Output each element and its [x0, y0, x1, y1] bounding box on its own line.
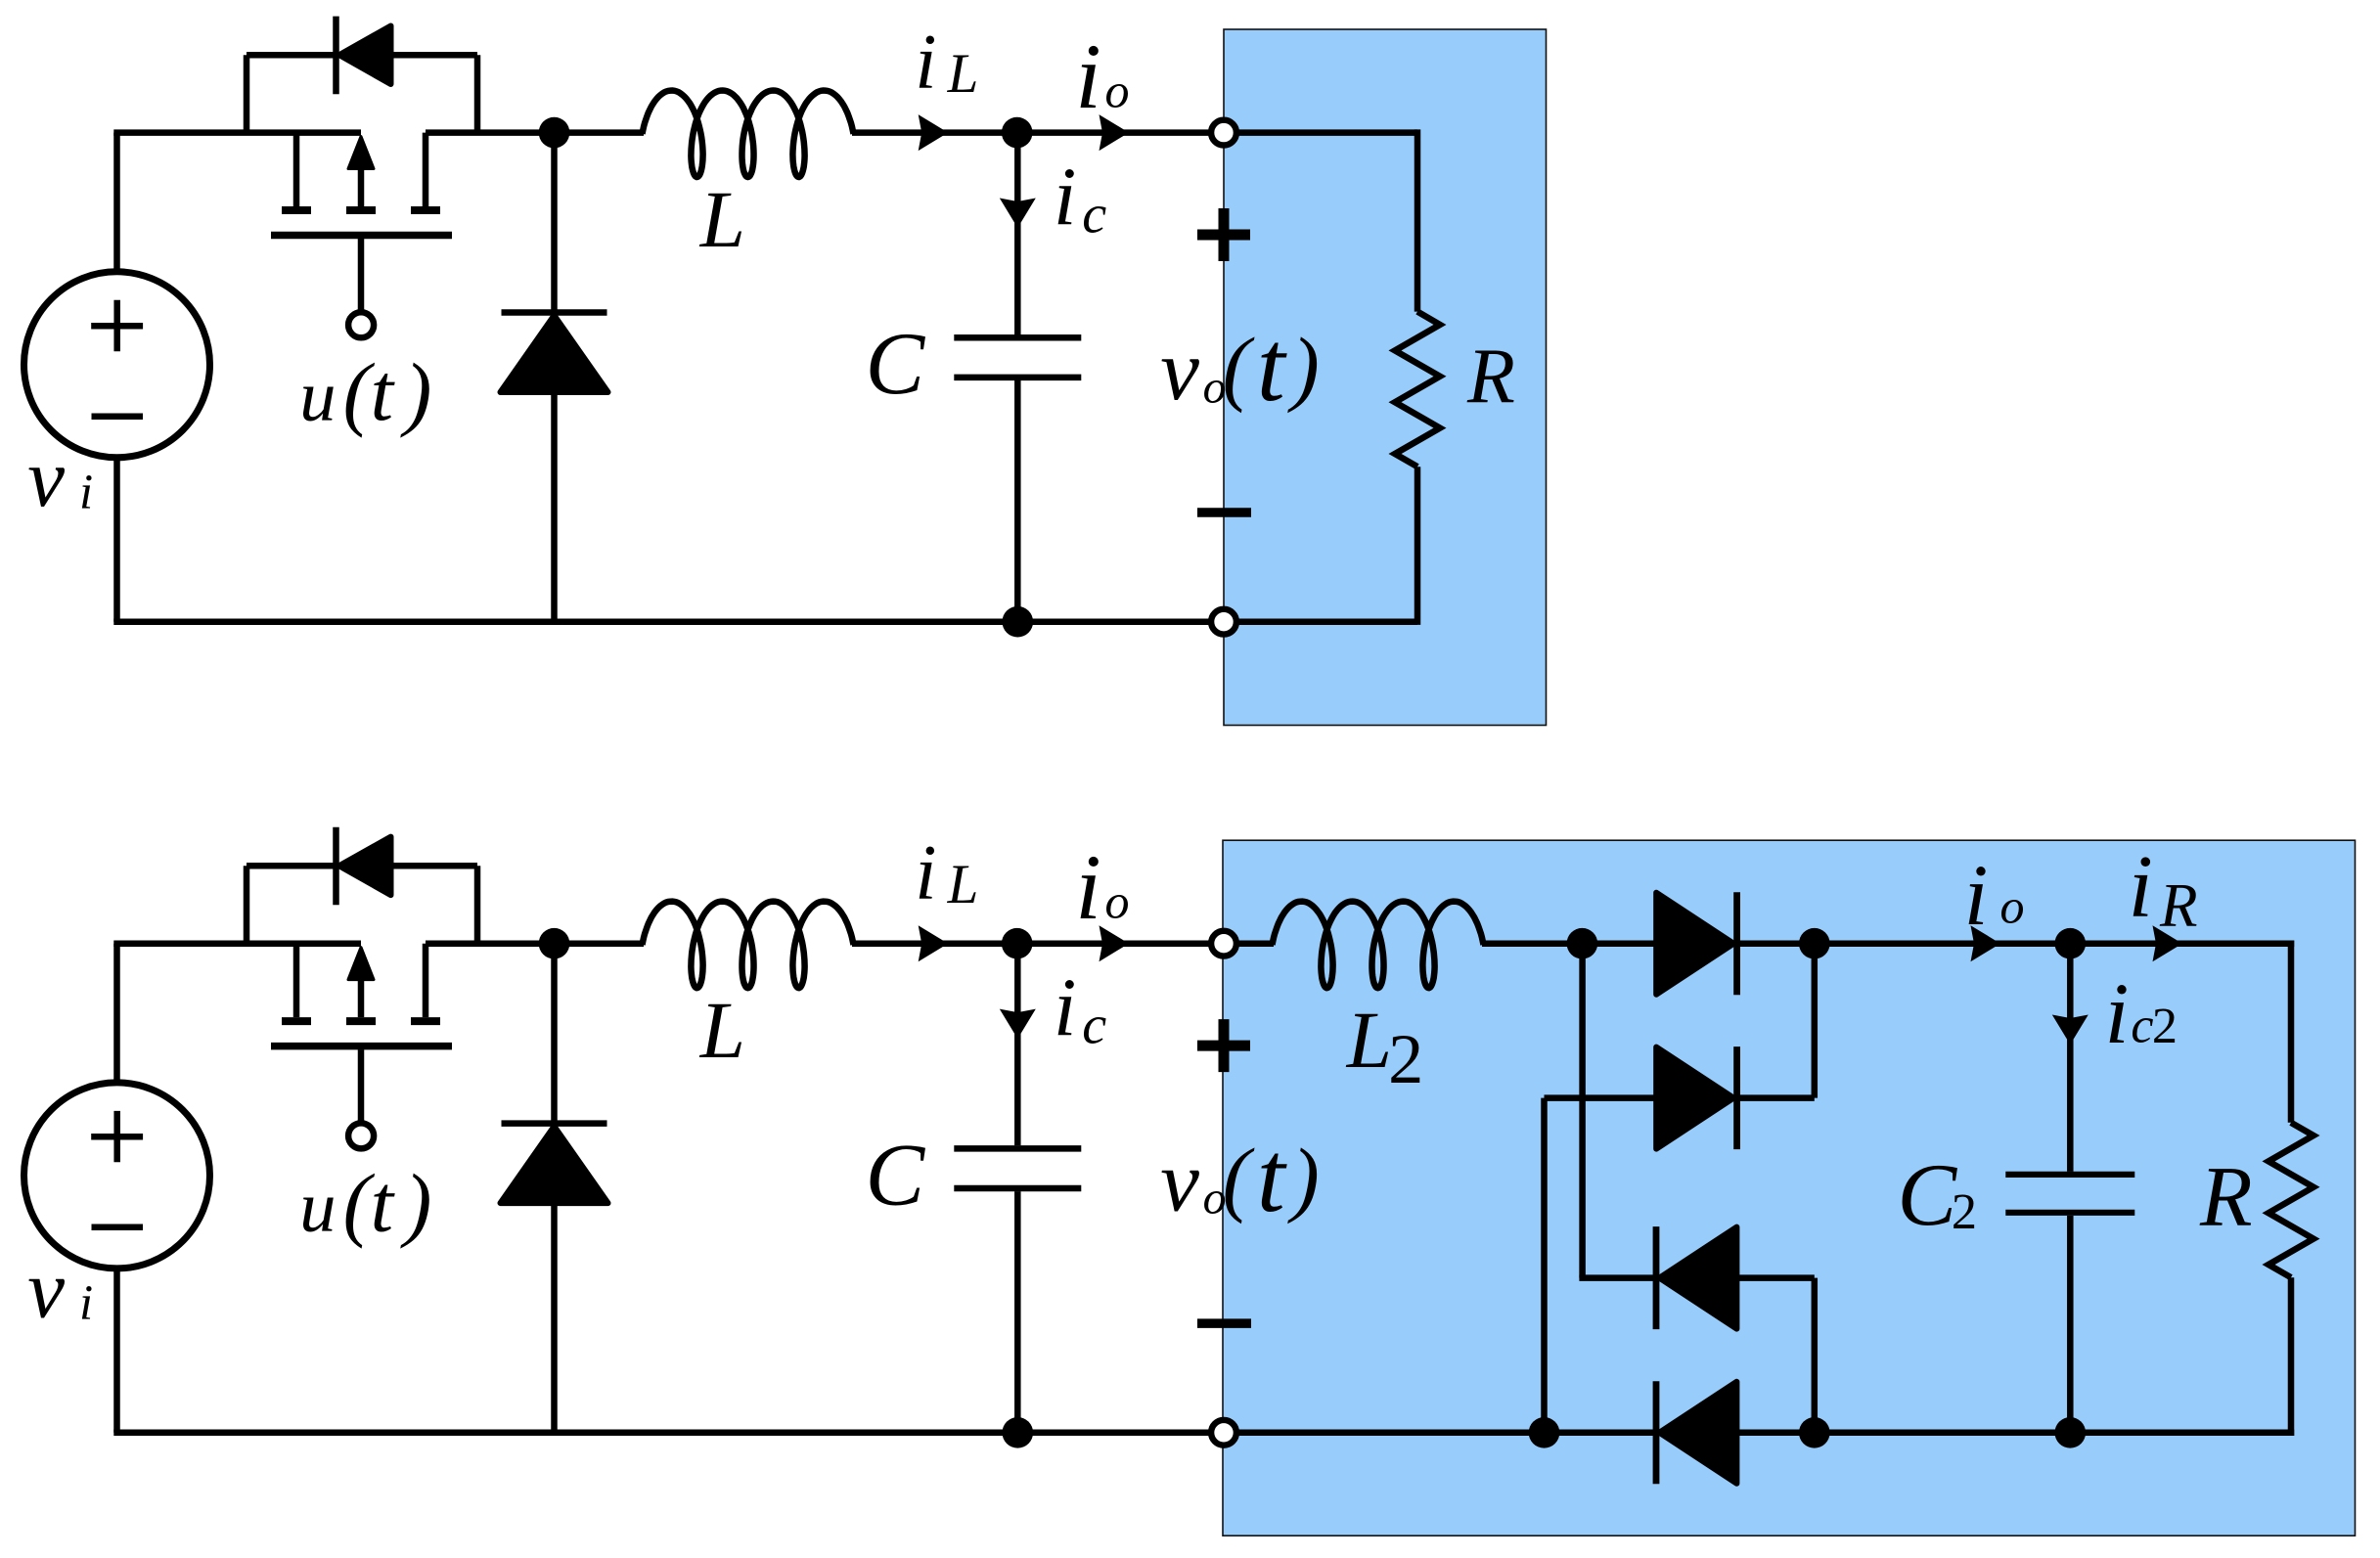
- inductor L (bottom): [643, 902, 854, 989]
- svg-text:u: u: [299, 1167, 336, 1247]
- svg-text:i: i: [2105, 966, 2130, 1062]
- svg-text:i: i: [79, 1275, 93, 1330]
- svg-text:c: c: [1082, 996, 1106, 1056]
- node bridge AC bottom dot: [1529, 1417, 1560, 1448]
- inductor L2: [1235, 902, 1582, 989]
- label R (top): [1466, 334, 1515, 420]
- wire vi top lead (top): [113, 133, 120, 272]
- svg-text:): ): [1286, 1132, 1320, 1224]
- resistor R (bridge load): [2268, 1123, 2313, 1277]
- diode D4 bridge bottom: [1656, 1381, 1736, 1484]
- label iL (top): [915, 20, 978, 106]
- wire top rail right of MOSFET (top): [426, 129, 644, 136]
- node inductor-capacitor junction dot (bottom): [1002, 928, 1033, 959]
- svg-text:(: (: [1223, 1132, 1255, 1224]
- label C (top): [866, 314, 926, 413]
- node capacitor bottom junction dot (bottom): [1003, 1417, 1034, 1448]
- current arrow iL (top): [919, 114, 949, 151]
- label ic (bottom): [1054, 962, 1106, 1055]
- wire bottom rail (top): [113, 618, 1213, 625]
- label ic (top): [1054, 152, 1106, 245]
- load network highlight box (top circuit): [1224, 29, 1547, 726]
- body diode D (top): [337, 17, 391, 95]
- voltage source vi (top): [24, 272, 210, 458]
- svg-text:(: (: [1223, 321, 1255, 414]
- wire bridge output rail: [1815, 940, 2294, 947]
- svg-text:): ): [400, 1159, 431, 1250]
- svg-text:t: t: [1257, 1122, 1287, 1233]
- svg-text:i: i: [2129, 837, 2153, 936]
- minus sign vo (bottom): [1197, 1318, 1251, 1328]
- body diode loop of MOSFET (top): [247, 55, 477, 132]
- svg-text:o: o: [1105, 874, 1130, 929]
- wire top rail left (bottom): [113, 940, 361, 947]
- wire resistor R bottom (top): [1235, 467, 1417, 625]
- plus sign vo (bottom): [1197, 1019, 1250, 1072]
- node drain junction dot (top): [539, 117, 570, 149]
- svg-text:R: R: [2199, 1149, 2253, 1244]
- label io (bottom): [1075, 835, 1129, 939]
- svg-text:i: i: [1075, 24, 1101, 128]
- wire bridge bottom rail: [1235, 1430, 2294, 1437]
- label L (bottom): [699, 985, 745, 1075]
- svg-text:C: C: [1898, 1145, 1958, 1244]
- current arrow ic (top): [1000, 199, 1036, 229]
- diode D2 bridge second: [1545, 944, 1815, 1149]
- svg-text:i: i: [915, 830, 936, 916]
- label C (bottom): [866, 1125, 926, 1224]
- svg-text:v: v: [1160, 322, 1199, 419]
- transistor Q MOSFET (top): [271, 133, 452, 338]
- current arrow ic (bottom): [1000, 1009, 1036, 1040]
- svg-text:c: c: [1082, 185, 1106, 245]
- label vo(t) (bottom): [1160, 1122, 1320, 1233]
- svg-text:i: i: [915, 20, 936, 106]
- label R (bridge load): [2199, 1149, 2253, 1244]
- resistor R (top): [1395, 312, 1440, 467]
- svg-text:v: v: [27, 432, 65, 524]
- wire node A down to D3: [1579, 944, 1659, 1278]
- label L (top): [699, 174, 745, 264]
- terminal output top (top): [1211, 120, 1236, 146]
- wire bottom rail (bottom): [113, 1430, 1213, 1437]
- wire top rail right of MOSFET (bottom): [426, 940, 644, 947]
- label vi (top): [27, 432, 93, 524]
- wire inductor to output node (top): [852, 129, 1213, 136]
- terminal output top (bottom): [1211, 931, 1236, 957]
- label C2: [1898, 1145, 1978, 1244]
- current arrow iL (bottom): [919, 925, 949, 961]
- diode D freewheeling (bottom): [501, 944, 608, 1433]
- label u(t) gate signal (bottom): [299, 1158, 431, 1249]
- svg-text:L: L: [947, 43, 979, 105]
- current arrow io (bridge output): [1971, 925, 2001, 961]
- label vo(t) (top): [1160, 311, 1320, 423]
- svg-text:t: t: [1257, 311, 1287, 423]
- node capacitor bottom junction dot (top): [1003, 606, 1034, 638]
- svg-text:i: i: [1054, 152, 1077, 243]
- label L2: [1346, 995, 1423, 1098]
- wire inductor to output node (bottom): [852, 940, 1213, 947]
- svg-text:i: i: [79, 465, 93, 519]
- capacitor C (top): [954, 133, 1081, 622]
- load network highlight box (bottom circuit): [1223, 840, 2356, 1536]
- svg-text:o: o: [2000, 879, 2025, 934]
- svg-text:R: R: [2159, 871, 2198, 940]
- svg-text:R: R: [1466, 334, 1515, 420]
- node bridge DC- dot: [1799, 1417, 1830, 1448]
- wire vi top lead (bottom): [113, 944, 120, 1083]
- capacitor C (bottom): [954, 944, 1081, 1433]
- svg-text:i: i: [1075, 835, 1101, 939]
- current arrow ic2: [2052, 1015, 2088, 1046]
- node C2 bottom junction dot: [2055, 1417, 2087, 1448]
- wire R2 bottom lead: [2288, 1277, 2295, 1436]
- body diode loop of MOSFET (bottom): [247, 866, 477, 943]
- node C2 top junction dot: [2055, 928, 2087, 959]
- svg-text:L: L: [947, 854, 979, 915]
- transistor Q MOSFET (bottom): [271, 944, 452, 1149]
- plus sign vo (top): [1197, 208, 1250, 261]
- wire top rail left (top): [113, 129, 361, 136]
- voltage source vi (bottom): [24, 1083, 210, 1269]
- diode D freewheeling (top): [501, 133, 608, 622]
- svg-text:L: L: [699, 174, 745, 264]
- node inductor-capacitor junction dot (top): [1002, 117, 1033, 149]
- svg-text:L: L: [1346, 995, 1392, 1085]
- inductor L (top): [643, 91, 854, 178]
- body diode D (bottom): [337, 827, 391, 906]
- svg-text:v: v: [27, 1243, 65, 1335]
- svg-text:u: u: [299, 356, 336, 436]
- svg-text:c: c: [2131, 999, 2153, 1054]
- terminal output bottom (bottom): [1211, 1420, 1236, 1446]
- label vi (bottom): [27, 1243, 93, 1335]
- terminal output bottom (top): [1211, 609, 1236, 635]
- label u(t) gate signal (top): [299, 347, 431, 438]
- svg-text:): ): [400, 347, 431, 438]
- capacitor C2: [2005, 944, 2134, 1433]
- current arrow iR: [2153, 925, 2183, 961]
- svg-text:i: i: [1964, 848, 1989, 944]
- svg-text:t: t: [371, 1158, 396, 1249]
- label iR: [2129, 837, 2198, 940]
- svg-text:2: 2: [1952, 1183, 1977, 1240]
- svg-text:v: v: [1160, 1133, 1199, 1229]
- label io (bridge output): [1964, 848, 2025, 944]
- label iL (bottom): [915, 830, 978, 916]
- node bridge DC+ dot B: [1799, 928, 1830, 959]
- minus sign vo (top): [1197, 508, 1251, 517]
- wire vi bottom lead (bottom): [113, 1269, 120, 1433]
- diode D3 bridge third: [1656, 1226, 1815, 1433]
- current arrow io (top): [1100, 114, 1130, 151]
- svg-text:L: L: [699, 985, 745, 1075]
- node bridge AC top dot A: [1567, 928, 1598, 959]
- svg-text:t: t: [371, 347, 396, 438]
- svg-text:): ): [1286, 321, 1320, 414]
- node drain junction dot (bottom): [539, 928, 570, 959]
- wire D2 anode down to bottom rail: [1541, 1098, 1548, 1433]
- svg-text:i: i: [1054, 962, 1077, 1053]
- wire to resistor R top (top): [1235, 129, 1417, 311]
- diode D1 bridge top: [1582, 892, 1814, 995]
- label io (top): [1075, 24, 1129, 128]
- label ic2: [2105, 966, 2178, 1062]
- svg-text:2: 2: [1388, 1020, 1423, 1098]
- current arrow io (bottom): [1100, 925, 1130, 961]
- svg-text:C: C: [866, 1125, 926, 1224]
- svg-text:2: 2: [2152, 998, 2178, 1054]
- wire vi bottom lead (top): [113, 458, 120, 622]
- svg-text:o: o: [1105, 64, 1130, 118]
- wire R2 top lead: [2288, 941, 2295, 1123]
- svg-text:C: C: [866, 314, 926, 413]
